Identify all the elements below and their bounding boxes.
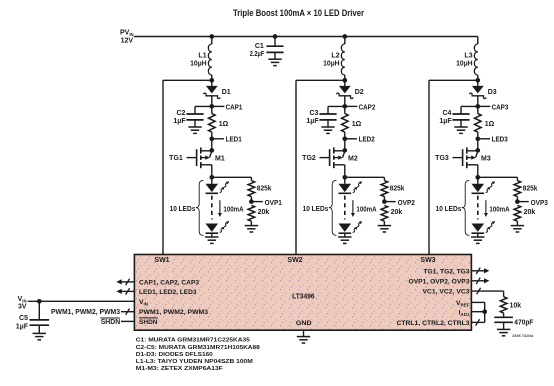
svg-text:C1: C1 <box>255 43 264 50</box>
svg-text:1Ω: 1Ω <box>352 121 362 128</box>
svg-text:TG1: TG1 <box>169 155 183 162</box>
svg-text:L3: L3 <box>464 52 472 59</box>
inductor L2 10uH <box>341 37 344 81</box>
svg-text:10 LEDs: 10 LEDs <box>303 206 329 213</box>
svg-text:CTRL1, CTRL2, CTRL3: CTRL1, CTRL2, CTRL3 <box>397 320 470 327</box>
bus arrow OVP pins <box>471 278 489 284</box>
svg-text:TG2: TG2 <box>302 155 316 162</box>
node VIN 3V input <box>18 296 27 310</box>
wire SW2 net to IC <box>296 80 345 255</box>
diode D3 Schottky <box>470 80 486 106</box>
resistor 10k compensation <box>500 297 507 313</box>
wire VREF to IADJ to CTRL loop <box>471 302 487 325</box>
svg-text:10µH: 10µH <box>456 61 473 68</box>
wire VC pins to compensation <box>471 288 503 297</box>
ground below C1 <box>268 58 281 60</box>
svg-text:1µF: 1µF <box>306 118 319 125</box>
svg-text:3496 TA04a: 3496 TA04a <box>512 333 534 338</box>
capacitor C1 2.2uF <box>266 37 283 60</box>
svg-text:10 LEDs: 10 LEDs <box>436 206 462 213</box>
current arrow 100mA channel 2 <box>351 200 355 217</box>
svg-text:LED1: LED1 <box>226 137 242 144</box>
node LED3 <box>475 136 507 143</box>
svg-text:M3: M3 <box>481 155 491 162</box>
node OVP3 <box>515 199 548 207</box>
svg-text:10µH: 10µH <box>190 61 207 68</box>
svg-text:C5: C5 <box>19 315 28 322</box>
svg-text:OVP2: OVP2 <box>398 200 415 207</box>
svg-text:D1-D3: DIODES DFLS160: D1-D3: DIODES DFLS160 <box>136 352 214 358</box>
label C1 value <box>250 43 265 58</box>
wire dashed LED string channel 3 <box>477 196 479 220</box>
current arrow 100mA channel 1 <box>218 200 222 217</box>
node LED1 <box>209 136 241 143</box>
ground below C4 <box>454 126 467 128</box>
junction dot channel 1 LED string top <box>209 175 251 180</box>
svg-text:825k: 825k <box>390 186 405 193</box>
svg-text:100mA: 100mA <box>356 206 376 213</box>
svg-text:LT3496: LT3496 <box>292 293 315 300</box>
svg-text:M1: M1 <box>215 155 225 162</box>
svg-text:12V: 12V <box>121 38 134 45</box>
LED string channel 3 bottom LED <box>472 221 496 237</box>
ground below LED string channel 2 <box>338 236 351 238</box>
svg-text:3V: 3V <box>18 303 27 310</box>
svg-text:LED3: LED3 <box>492 137 508 144</box>
bus arrow LED pins <box>116 288 134 294</box>
LED string channel 2 bottom LED <box>339 221 363 237</box>
svg-text:20k: 20k <box>524 209 536 216</box>
svg-text:PWM1, PWM2, PWM3: PWM1, PWM2, PWM3 <box>51 309 120 316</box>
svg-text:10 LEDs: 10 LEDs <box>170 206 196 213</box>
current arrow 100mA channel 3 <box>484 200 488 217</box>
resistor 825k channel 1 <box>248 177 255 201</box>
svg-text:VC1, VC2, VC3: VC1, VC2, VC3 <box>423 289 470 296</box>
svg-text:SHDN: SHDN <box>139 319 158 326</box>
ground below LED string channel 3 <box>471 236 484 238</box>
op-amp U1 LT3496 IC block <box>134 255 471 331</box>
node CAP2 <box>342 104 375 111</box>
svg-text:CAP1, CAP2, CAP3: CAP1, CAP2, CAP3 <box>139 280 199 287</box>
node SHDN input <box>100 318 134 326</box>
svg-text:L2: L2 <box>331 52 339 59</box>
svg-text:1Ω: 1Ω <box>485 121 495 128</box>
junction dot L1 bottom / SW1 node <box>209 78 214 83</box>
wire dashed LED string channel 1 <box>211 196 213 220</box>
resistor 825k channel 2 <box>381 177 388 201</box>
svg-text:20k: 20k <box>258 209 270 216</box>
svg-text:C2: C2 <box>176 110 185 117</box>
svg-text:825k: 825k <box>523 186 538 193</box>
node OVP2 <box>382 199 415 207</box>
svg-text:20k: 20k <box>391 209 403 216</box>
wire PVIN top rail <box>134 36 478 38</box>
svg-text:D1: D1 <box>222 89 231 96</box>
svg-text:C1: MURATA GRM31MR71C225KA35: C1: MURATA GRM31MR71C225KA35 <box>136 338 251 344</box>
ground below C2 <box>188 126 201 128</box>
svg-text:CAP2: CAP2 <box>359 104 376 111</box>
node PVIN input label <box>120 30 134 45</box>
ground below 470pF <box>497 328 510 330</box>
svg-text:C4: C4 <box>442 110 451 117</box>
svg-text:100mA: 100mA <box>223 206 243 213</box>
svg-text:OVP3: OVP3 <box>531 200 548 207</box>
svg-text:TG3: TG3 <box>435 155 449 162</box>
resistor 1Ω channel 1 <box>209 106 216 138</box>
svg-text:SW2: SW2 <box>287 257 302 264</box>
brace 10 LEDs channel 3 <box>462 180 470 235</box>
label C2 value <box>173 110 186 125</box>
junction dot L2 on rail <box>342 34 347 39</box>
ground below 20k channel 3 <box>511 225 524 227</box>
ground below 20k channel 2 <box>378 225 391 227</box>
junction dot channel 2 LED string top <box>342 175 384 180</box>
svg-text:470pF: 470pF <box>514 319 534 326</box>
label L3 value <box>456 52 473 67</box>
wire VIN to IC <box>28 299 135 304</box>
capacitor C2 1uF <box>186 106 211 127</box>
svg-text:L1: L1 <box>198 52 206 59</box>
inductor L3 10uH <box>474 37 477 81</box>
svg-text:OVP1: OVP1 <box>265 200 282 207</box>
svg-text:1µF: 1µF <box>16 323 29 330</box>
svg-text:SW3: SW3 <box>420 257 435 264</box>
svg-text:10k: 10k <box>510 302 522 309</box>
svg-text:C2-C5: MURATA GRM31MR71H105KA8: C2-C5: MURATA GRM31MR71H105KA88 <box>136 345 261 351</box>
node CAP3 <box>475 104 508 111</box>
capacitor C5 1uF <box>30 301 50 333</box>
svg-text:CAP1: CAP1 <box>226 104 243 111</box>
ground below 20k channel 1 <box>245 225 258 227</box>
ground below LED string channel 1 <box>205 236 218 238</box>
wire SW1 net to IC <box>163 80 212 255</box>
junction dot L3 bottom / SW3 node <box>475 78 480 83</box>
svg-text:100mA: 100mA <box>489 206 509 213</box>
wire dashed LED string channel 2 <box>344 196 346 220</box>
junction dot channel 3 LED string top <box>475 175 517 180</box>
svg-text:825k: 825k <box>257 186 272 193</box>
resistor 20k channel 1 <box>248 205 255 225</box>
svg-text:1Ω: 1Ω <box>219 121 229 128</box>
svg-text:L1-L3: TAIYO YUDEN NP04SZB 100: L1-L3: TAIYO YUDEN NP04SZB 100M <box>136 359 253 365</box>
svg-text:M2: M2 <box>348 155 358 162</box>
brace 10 LEDs channel 1 <box>196 180 204 235</box>
svg-text:LED1, LED2, LED3: LED1, LED2, LED3 <box>139 289 197 296</box>
LED string channel 1 bottom LED <box>206 221 230 237</box>
label C5 value <box>16 315 29 330</box>
svg-text:2.2µF: 2.2µF <box>250 51 265 58</box>
LED string channel 2 top LED <box>339 177 363 193</box>
notes component table <box>136 338 261 373</box>
transistor M1 PMOS <box>187 139 215 178</box>
capacitor C4 1uF <box>452 106 477 127</box>
node LED2 <box>342 136 374 143</box>
resistor 1Ω channel 2 <box>342 106 349 138</box>
ground GND pin of IC <box>297 330 310 343</box>
bus arrow TG pins <box>471 268 489 274</box>
label L2 value <box>323 52 340 67</box>
junction dot C1 on rail <box>273 34 278 39</box>
wire SW3 net to IC <box>429 80 478 255</box>
svg-text:CAP3: CAP3 <box>492 104 509 111</box>
svg-text:PWM1, PWM2, PWM3: PWM1, PWM2, PWM3 <box>139 309 208 316</box>
svg-text:Triple Boost 100mA × 10 LED Dr: Triple Boost 100mA × 10 LED Driver <box>233 8 364 19</box>
node PWM inputs <box>51 309 134 317</box>
resistor 20k channel 3 <box>514 205 521 225</box>
capacitor 470pF compensation <box>494 313 513 329</box>
brace 10 LEDs channel 2 <box>329 180 337 235</box>
label C3 value <box>306 110 319 125</box>
node OVP1 <box>249 199 282 207</box>
svg-text:M1-M3: ZETEX ZXMP6A13F: M1-M3: ZETEX ZXMP6A13F <box>136 366 223 372</box>
transistor M2 PMOS <box>320 139 348 178</box>
ground below C5 <box>33 332 46 334</box>
transistor M3 PMOS <box>453 139 481 178</box>
resistor 1Ω channel 3 <box>475 106 482 138</box>
node CAP1 <box>209 104 242 111</box>
inductor L1 10uH <box>208 37 211 81</box>
label C4 value <box>439 110 452 125</box>
junction dot L2 bottom / SW2 node <box>342 78 347 83</box>
junction dot L1 on rail <box>209 34 214 39</box>
svg-text:LED2: LED2 <box>359 137 375 144</box>
resistor 825k channel 3 <box>514 177 521 201</box>
svg-text:SW1: SW1 <box>154 257 169 264</box>
LED string channel 3 top LED <box>472 177 496 193</box>
bus arrow CAP pins <box>116 279 134 285</box>
svg-text:1µF: 1µF <box>173 118 186 125</box>
svg-text:GND: GND <box>296 320 312 327</box>
label L1 value <box>190 52 207 67</box>
capacitor C3 1uF <box>319 106 344 127</box>
svg-text:SHDN: SHDN <box>101 319 121 326</box>
diode D1 Schottky <box>204 80 220 106</box>
svg-text:TG1, TG2, TG3: TG1, TG2, TG3 <box>424 269 470 276</box>
svg-text:OVP1, OVP2, OVP3: OVP1, OVP2, OVP3 <box>409 279 470 286</box>
svg-text:D2: D2 <box>355 89 364 96</box>
svg-text:D3: D3 <box>488 89 497 96</box>
svg-text:1µF: 1µF <box>439 118 452 125</box>
svg-text:C3: C3 <box>309 110 318 117</box>
svg-text:10µH: 10µH <box>323 61 340 68</box>
LED string channel 1 top LED <box>206 177 230 193</box>
ground below C3 <box>321 126 334 128</box>
resistor 20k channel 2 <box>381 205 388 225</box>
diode D2 Schottky <box>337 80 353 106</box>
